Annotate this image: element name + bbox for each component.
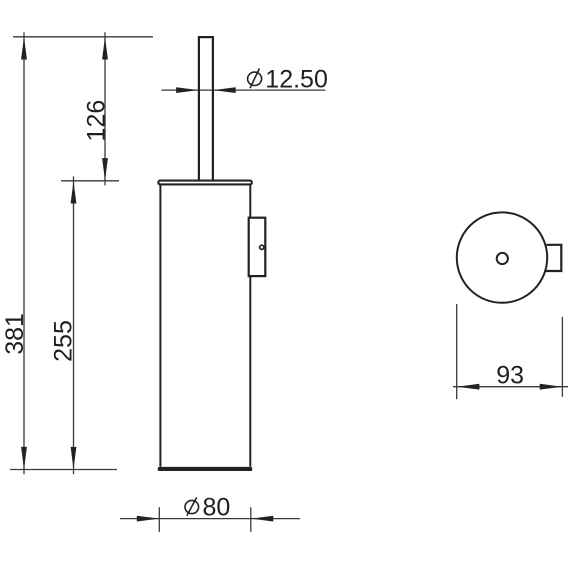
brush rod xyxy=(199,37,213,180)
canister body xyxy=(160,185,250,467)
dim Ø80 line xyxy=(120,516,300,522)
dim Ø12.50 label diameter symbol xyxy=(248,69,262,89)
svg-text:381: 381 xyxy=(1,313,29,355)
top extension line xyxy=(13,36,153,38)
dim 255 line xyxy=(71,176,77,474)
dim Ø80 label diameter symbol xyxy=(185,498,199,516)
bottom extension line xyxy=(10,469,117,471)
bracket screw hole xyxy=(260,245,264,249)
canister rim xyxy=(158,181,251,185)
canister bottom band xyxy=(158,467,253,471)
wall bracket xyxy=(249,218,266,276)
svg-text:93: 93 xyxy=(496,361,524,389)
dim 126 line xyxy=(102,32,108,185)
svg-text:80: 80 xyxy=(203,493,231,521)
svg-text:255: 255 xyxy=(50,320,78,362)
dim 93 line xyxy=(453,384,568,390)
dim Ø12.50 lines xyxy=(161,87,325,93)
top view screw hole xyxy=(497,253,508,264)
svg-text:12.50: 12.50 xyxy=(265,66,328,94)
dim 93 extension lines xyxy=(457,304,563,399)
dim Ø80 extension ticks xyxy=(159,507,251,532)
svg-text:126: 126 xyxy=(82,100,110,142)
top view circle xyxy=(457,212,547,302)
mid extension line (canister top) xyxy=(61,180,119,182)
top view bracket tab xyxy=(546,245,561,271)
dim 381 line xyxy=(21,32,27,474)
